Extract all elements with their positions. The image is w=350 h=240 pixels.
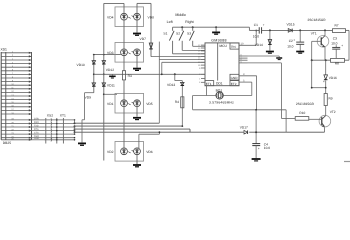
svg-text:RTS: RTS [34,128,39,131]
svg-text:2SC1815GR: 2SC1815GR [308,18,327,22]
svg-text:R9: R9 [329,97,333,101]
svg-text:VD13: VD13 [167,83,175,87]
svg-text:10.0: 10.0 [264,146,270,150]
svg-text:ET1: ET1 [206,82,212,86]
svg-text:R4: R4 [175,100,179,104]
svg-text:C1: C1 [254,23,258,27]
svg-text:4: 4 [199,81,201,84]
svg-text:10.0: 10.0 [253,34,259,38]
svg-text:VD6: VD6 [146,150,153,154]
svg-text:1: 1 [199,77,201,80]
svg-text:VD15: VD15 [287,23,295,27]
svg-text:VD2: VD2 [107,150,114,154]
svg-text:VT1: VT1 [311,32,317,36]
svg-text:VD16: VD16 [329,76,337,80]
svg-text:RXD: RXD [34,121,39,124]
svg-text:VD14: VD14 [255,43,263,47]
svg-text:10.0: 10.0 [287,45,293,49]
svg-text:+: + [341,44,343,48]
svg-text:XS2: XS2 [47,113,53,117]
svg-text:+: + [258,146,260,150]
svg-text:+: + [293,38,295,42]
svg-text:XT1: XT1 [60,113,66,117]
svg-text:S2: S2 [176,32,180,36]
svg-text:CTS: CTS [34,132,39,135]
svg-text:VD5: VD5 [146,102,153,106]
svg-text:VD10: VD10 [77,63,85,67]
svg-text:DB25: DB25 [3,141,11,145]
svg-text:13: 13 [198,47,201,50]
svg-text:3.5796465MHz: 3.5796465MHz [209,100,234,104]
svg-text:VD4: VD4 [107,15,114,19]
svg-text:R8: R8 [335,61,339,65]
svg-text:10.0: 10.0 [331,41,337,45]
svg-text:GM9088: GM9088 [211,39,227,43]
svg-text:DTR: DTR [34,117,39,120]
svg-text:S1: S1 [163,32,167,36]
svg-text:R7: R7 [335,24,339,28]
svg-text:Ucc: Ucc [231,45,237,49]
svg-text:GND: GND [231,76,239,80]
svg-text:VD1: VD1 [107,102,114,106]
svg-text:R3: R3 [128,74,132,78]
svg-text:+: + [263,23,265,27]
svg-text:C3: C3 [333,37,337,41]
svg-text:MCU: MCU [219,44,227,48]
svg-text:TXD: TXD [34,124,39,127]
svg-text:10: 10 [241,42,244,45]
svg-text:VD17: VD17 [240,125,248,129]
svg-text:XS1: XS1 [1,48,8,52]
svg-text:DD1: DD1 [216,82,223,86]
svg-text:VT2: VT2 [330,110,336,114]
svg-text:VD7: VD7 [140,37,147,41]
svg-text:Middle: Middle [175,13,186,17]
svg-text:19: 19 [198,64,201,67]
svg-text:Left: Left [167,20,173,24]
svg-text:9: 9 [241,61,242,64]
svg-text:9: 9 [199,67,201,70]
svg-text:2SC1815GR: 2SC1815GR [296,102,315,106]
svg-text:GND: GND [34,137,39,140]
svg-text:VD12: VD12 [106,68,114,72]
svg-text:R10: R10 [299,111,305,115]
svg-text:VD11: VD11 [107,83,115,87]
svg-text:S3: S3 [187,32,191,36]
svg-text:VD9: VD9 [85,95,92,99]
svg-text:Right: Right [185,20,193,24]
svg-text:ET2: ET2 [231,82,237,86]
svg-text:8: 8 [241,58,242,61]
svg-text:VD3: VD3 [107,51,114,55]
